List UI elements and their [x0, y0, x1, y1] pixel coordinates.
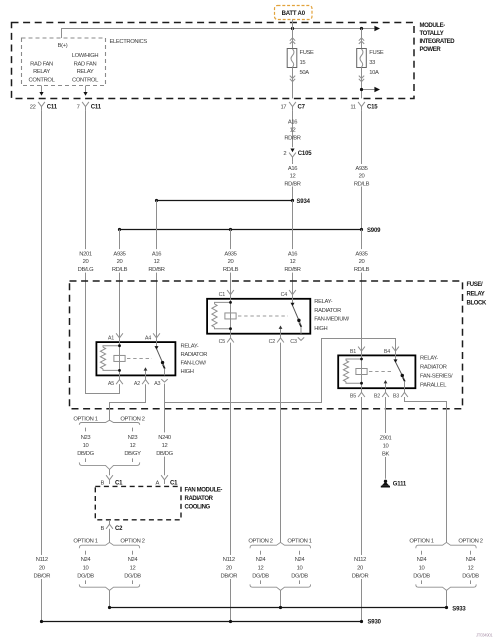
relay R2 radiator fan medium/high label: [314, 299, 349, 332]
svg-text:DG/DB: DG/DB: [252, 573, 269, 579]
svg-text:20: 20: [359, 259, 365, 265]
relay R3 radiator fan series/parallel body: [338, 355, 415, 388]
svg-text:C11: C11: [91, 105, 102, 111]
svg-text:DB/OR: DB/OR: [352, 573, 369, 579]
svg-text:C15: C15: [367, 105, 378, 111]
svg-text:A2: A2: [134, 381, 140, 387]
connector 11 C15: [350, 102, 378, 111]
relay R1 radiator fan low/high coil: [100, 342, 125, 375]
svg-text:HIGH: HIGH: [314, 326, 327, 332]
wire Z901 labels: [373, 433, 398, 457]
svg-text:INTEGRATED: INTEGRATED: [420, 39, 456, 45]
wire A16 to relay2 C4: [292, 201, 294, 295]
svg-text:A4: A4: [145, 336, 151, 342]
svg-text:LOW/HIGH: LOW/HIGH: [72, 53, 99, 59]
electronics inner dashed box: [22, 38, 106, 86]
pin C2: [269, 334, 284, 345]
svg-text:MODULE-: MODULE-: [420, 23, 446, 29]
wire fuse33 branch: [360, 87, 380, 92]
svg-text:RAD FAN: RAD FAN: [74, 61, 97, 67]
option split middle N24: [248, 539, 311, 591]
svg-text:S933: S933: [452, 606, 466, 612]
svg-text:BATT A0: BATT A0: [282, 11, 306, 17]
svg-text:RADIATOR: RADIATOR: [420, 365, 447, 371]
relay R2 radiator fan medium/high switch: [291, 299, 303, 334]
svg-text:20: 20: [228, 259, 234, 265]
svg-text:RELAY: RELAY: [33, 69, 50, 75]
svg-text:RADIATOR: RADIATOR: [185, 496, 214, 502]
svg-text:N112: N112: [223, 557, 235, 563]
wire A935 to relay3 B1: [361, 230, 363, 352]
svg-text:FUSE/: FUSE/: [467, 282, 483, 288]
wire A16 lower: [280, 161, 304, 200]
svg-text:C1: C1: [170, 480, 178, 486]
svg-text:JT034901: JT034901: [476, 633, 493, 638]
wire A16 to relay1 A4: [156, 201, 158, 339]
svg-text:RELAY-: RELAY-: [314, 299, 332, 305]
svg-text:RADIATOR: RADIATOR: [314, 308, 341, 314]
svg-text:DB/DG: DB/DG: [156, 451, 173, 457]
svg-text:DB/GY: DB/GY: [124, 451, 141, 457]
svg-text:C105: C105: [298, 151, 312, 157]
pin B4: [384, 347, 399, 356]
relay R2 radiator fan medium/high contact pin: [280, 327, 282, 333]
label MODULE-TOTALLY INTEGRATED POWER: [420, 23, 456, 53]
svg-text:OPTION 1: OPTION 1: [409, 539, 433, 545]
wire N112 label mid: [215, 555, 243, 579]
svg-text:N201: N201: [79, 251, 92, 257]
svg-text:RD/LB: RD/LB: [354, 267, 370, 273]
junction fuse15 top: [291, 27, 294, 30]
svg-text:RADIATOR: RADIATOR: [181, 352, 208, 358]
connector B C2: [100, 520, 123, 532]
svg-text:10: 10: [419, 565, 425, 571]
relay R3 radiator fan series/parallel actuator link: [369, 371, 391, 373]
wire N112 label left: [28, 555, 56, 579]
svg-text:20: 20: [83, 259, 89, 265]
connector 2 C105: [283, 149, 312, 162]
svg-text:A935: A935: [355, 166, 367, 172]
svg-text:B(+): B(+): [58, 43, 68, 49]
svg-text:12: 12: [162, 443, 168, 449]
svg-text:RELAY-: RELAY-: [420, 355, 438, 361]
connector 22 C11: [30, 102, 58, 111]
relay R2 radiator fan medium/high body: [207, 299, 310, 334]
svg-text:Z901: Z901: [380, 436, 392, 442]
option split right N24: [409, 539, 482, 591]
svg-text:B: B: [100, 526, 104, 532]
mid wire labels row: [72, 249, 376, 273]
module TIPM dashed box: [12, 23, 415, 99]
svg-text:OPTION 2: OPTION 2: [120, 417, 144, 423]
svg-text:A16: A16: [288, 119, 297, 125]
svg-text:FUSE: FUSE: [300, 50, 315, 56]
svg-text:N23: N23: [128, 435, 138, 441]
svg-text:B: B: [100, 480, 104, 486]
svg-text:10: 10: [83, 565, 89, 571]
svg-text:DG/DB: DG/DB: [462, 573, 479, 579]
connector 7 C11: [77, 102, 102, 111]
svg-text:C2: C2: [115, 526, 123, 532]
wire C5 down to S930: [230, 343, 232, 622]
svg-text:OPTION 1: OPTION 1: [73, 417, 97, 423]
wire B3 to right option split: [405, 397, 447, 542]
pin A4: [145, 333, 160, 342]
svg-text:20: 20: [226, 565, 232, 571]
svg-text:12: 12: [468, 565, 474, 571]
svg-text:OPTION 2: OPTION 2: [120, 539, 144, 545]
svg-text:POWER: POWER: [420, 47, 442, 53]
svg-text:DB/OR: DB/OR: [220, 573, 237, 579]
pin C4: [281, 290, 296, 299]
svg-text:OPTION 1: OPTION 1: [73, 539, 97, 545]
svg-text:C4: C4: [281, 292, 288, 298]
pin C5: [219, 334, 234, 345]
svg-text:50A: 50A: [300, 70, 310, 76]
splice S933: [108, 606, 466, 613]
svg-text:RAD FAN: RAD FAN: [30, 61, 53, 67]
svg-text:RD/LB: RD/LB: [354, 182, 370, 188]
svg-text:17: 17: [280, 105, 286, 111]
wire A935 from C15: [348, 111, 375, 230]
svg-text:12: 12: [290, 173, 296, 179]
wire A3 down to fan A: [164, 384, 166, 476]
svg-text:10A: 10A: [369, 70, 379, 76]
relay R3 radiator fan series/parallel switch: [394, 355, 406, 388]
svg-text:COOLING: COOLING: [185, 505, 211, 511]
svg-text:C7: C7: [298, 105, 306, 111]
svg-text:FUSE: FUSE: [369, 50, 384, 56]
splice S930: [40, 620, 382, 626]
svg-text:DG/DB: DG/DB: [124, 573, 141, 579]
svg-text:RD/BR: RD/BR: [284, 267, 300, 273]
wire low/high control out: [83, 86, 87, 96]
svg-text:N23: N23: [81, 435, 91, 441]
svg-text:12: 12: [258, 565, 264, 571]
svg-text:33: 33: [369, 60, 375, 66]
pin A1: [108, 333, 123, 342]
svg-text:A5: A5: [108, 381, 114, 387]
wire BATT A0 to bus: [292, 20, 294, 29]
svg-text:RELAY: RELAY: [467, 292, 485, 298]
splice S909: [118, 228, 381, 234]
svg-text:TOTALLY: TOTALLY: [420, 31, 444, 37]
pin A3: [154, 379, 168, 387]
svg-text:A16: A16: [288, 166, 297, 172]
svg-text:N24: N24: [466, 557, 477, 563]
svg-text:C2: C2: [269, 339, 276, 345]
svg-text:OPTION 1: OPTION 1: [287, 539, 311, 545]
svg-text:CONTROL: CONTROL: [29, 77, 56, 83]
wire right merge to S933: [446, 590, 448, 607]
fan module radiator cooling box: [95, 486, 181, 519]
pin A2: [134, 375, 149, 386]
pin B3: [393, 388, 408, 399]
svg-text:RELAY: RELAY: [77, 69, 94, 75]
svg-text:RD/BR: RD/BR: [148, 267, 164, 273]
svg-text:20: 20: [357, 565, 363, 571]
wire N240 labels: [151, 432, 178, 457]
svg-text:10: 10: [83, 443, 89, 449]
relay R1 radiator fan low/high contact pin: [145, 369, 147, 375]
relay R2 radiator fan medium/high actuator link: [238, 315, 288, 317]
option split left N24: [73, 539, 144, 591]
svg-text:DB/OR: DB/OR: [33, 573, 50, 579]
label FAN MODULE-RADIATOR COOLING: [185, 488, 223, 511]
svg-text:FAN-MEDIUM/: FAN-MEDIUM/: [314, 317, 349, 323]
connector 17 C7: [280, 102, 305, 111]
svg-text:S930: S930: [368, 620, 382, 626]
wire A935 to relay2 C1: [230, 230, 232, 295]
fuse 33 10A: [357, 29, 384, 99]
svg-text:CONTROL: CONTROL: [72, 77, 99, 83]
wire A3 to relay3 B4 loop: [165, 339, 396, 403]
svg-text:N240: N240: [158, 435, 171, 441]
svg-text:N24: N24: [417, 557, 428, 563]
svg-text:11: 11: [350, 105, 355, 111]
BATT A0 tag: [275, 6, 313, 20]
label FUSE/RELAY BLOCK: [467, 282, 487, 306]
svg-text:DG/DB: DG/DB: [413, 573, 430, 579]
svg-text:N24: N24: [295, 557, 306, 563]
label LOW/HIGH RAD FAN RELAY CONTROL: [72, 53, 99, 83]
svg-text:A935: A935: [224, 251, 236, 257]
svg-text:BK: BK: [382, 451, 390, 457]
relay R2 radiator fan medium/high coil: [212, 299, 236, 334]
svg-text:S909: S909: [367, 228, 381, 234]
junction fuse33 top: [360, 27, 363, 30]
svg-text:B2: B2: [374, 394, 380, 400]
arrow bus right: [374, 26, 380, 31]
svg-text:20: 20: [117, 259, 123, 265]
wire C2 down to option split: [280, 343, 282, 543]
relay R1 radiator fan low/high switch: [155, 342, 166, 375]
pin B5: [350, 388, 365, 399]
svg-text:N24: N24: [81, 557, 92, 563]
wire fan B to option split: [109, 529, 111, 543]
svg-text:DG/DB: DG/DB: [77, 573, 94, 579]
wire A935 to relay1 A1: [119, 230, 121, 339]
relay R1 radiator fan low/high actuator link: [127, 357, 152, 359]
svg-text:A3: A3: [154, 381, 160, 387]
svg-text:DB/DG: DB/DG: [77, 451, 94, 457]
connector B C1: [100, 475, 123, 486]
wire A2 to option split: [110, 384, 146, 420]
svg-text:RD/LB: RD/LB: [223, 267, 239, 273]
svg-text:20: 20: [39, 565, 45, 571]
svg-text:7: 7: [77, 105, 80, 111]
svg-text:B3: B3: [393, 394, 399, 400]
svg-text:PARALLEL: PARALLEL: [420, 383, 447, 389]
label RAD FAN RELAY CONTROL: [29, 61, 56, 83]
wire N112 label right: [346, 555, 374, 579]
svg-text:12: 12: [130, 565, 136, 571]
svg-text:HIGH: HIGH: [181, 369, 194, 375]
wire N201: [86, 111, 120, 394]
svg-text:A935: A935: [355, 251, 367, 257]
svg-text:RELAY-: RELAY-: [181, 344, 199, 350]
ground G111: [381, 480, 407, 488]
svg-text:FAN-LOW/: FAN-LOW/: [181, 361, 207, 367]
relay R3 radiator fan series/parallel label: [420, 355, 453, 388]
svg-text:N112: N112: [354, 557, 366, 563]
wire rad fan relay control out: [39, 86, 43, 96]
pin C1: [219, 290, 234, 299]
relay R3 radiator fan series/parallel coil: [343, 355, 367, 388]
svg-text:B4: B4: [384, 349, 390, 355]
relay R1 radiator fan low/high body: [96, 342, 175, 375]
svg-text:N24: N24: [128, 557, 139, 563]
pin B2: [374, 388, 389, 399]
svg-text:A935: A935: [113, 251, 125, 257]
svg-text:FAN-SERIES/: FAN-SERIES/: [420, 374, 453, 380]
svg-text:20: 20: [359, 173, 365, 179]
wire A5 to N201 jog: [119, 384, 121, 393]
svg-text:A: A: [155, 480, 159, 486]
svg-text:10: 10: [383, 444, 389, 450]
wire middle merge to S933: [280, 590, 282, 607]
svg-text:N24: N24: [256, 557, 267, 563]
svg-text:RD/LB: RD/LB: [112, 267, 128, 273]
svg-text:N112: N112: [36, 557, 48, 563]
svg-text:12: 12: [290, 127, 296, 133]
connector A C1: [155, 475, 178, 486]
svg-text:12: 12: [154, 259, 160, 265]
wire N112 left: [41, 111, 43, 622]
svg-text:C5: C5: [219, 339, 226, 345]
svg-text:OPTION 2: OPTION 2: [248, 539, 272, 545]
svg-text:B5: B5: [350, 394, 356, 400]
option split N23: [73, 417, 144, 470]
svg-text:RD/BR: RD/BR: [284, 135, 300, 141]
svg-text:12: 12: [130, 443, 136, 449]
svg-text:C11: C11: [47, 105, 58, 111]
wire left merge to S933: [109, 590, 111, 607]
svg-text:C3: C3: [290, 339, 297, 345]
svg-text:FAN MODULE-: FAN MODULE-: [185, 488, 223, 494]
svg-text:OPTION 2: OPTION 2: [458, 539, 482, 545]
svg-text:2: 2: [283, 151, 286, 157]
svg-text:RD/BR: RD/BR: [284, 182, 300, 188]
svg-text:BLOCK: BLOCK: [467, 301, 487, 307]
pin B1: [350, 347, 365, 356]
relay R3 radiator fan series/parallel contact pin: [385, 382, 387, 388]
svg-text:B1: B1: [350, 349, 356, 355]
pin C3: [290, 337, 304, 345]
svg-text:G111: G111: [393, 482, 407, 488]
svg-text:15: 15: [300, 60, 306, 66]
svg-text:A1: A1: [108, 336, 114, 342]
wire to fan module B: [109, 469, 111, 475]
splice S934: [155, 199, 311, 205]
fuse 15 50A: [287, 29, 314, 99]
pin A5: [108, 375, 123, 386]
svg-text:C1: C1: [219, 292, 226, 298]
wire B(+) feed bus: [62, 29, 375, 39]
svg-text:C1: C1: [115, 480, 123, 486]
wire B2 down to ground: [385, 397, 387, 479]
svg-text:10: 10: [297, 565, 303, 571]
svg-text:DB/LG: DB/LG: [78, 267, 94, 273]
wire A16 upper: [284, 111, 300, 148]
fuse/relay block dashed box: [70, 281, 463, 409]
svg-text:A16: A16: [152, 251, 161, 257]
svg-text:A16: A16: [288, 251, 297, 257]
svg-text:DG/DB: DG/DB: [291, 573, 308, 579]
wire B5 down to S930: [361, 397, 363, 622]
svg-text:22: 22: [30, 105, 36, 111]
svg-text:ELECTRONICS: ELECTRONICS: [110, 39, 148, 45]
svg-text:12: 12: [290, 259, 296, 265]
relay R1 radiator fan low/high label: [181, 344, 208, 375]
svg-text:S934: S934: [297, 199, 311, 205]
